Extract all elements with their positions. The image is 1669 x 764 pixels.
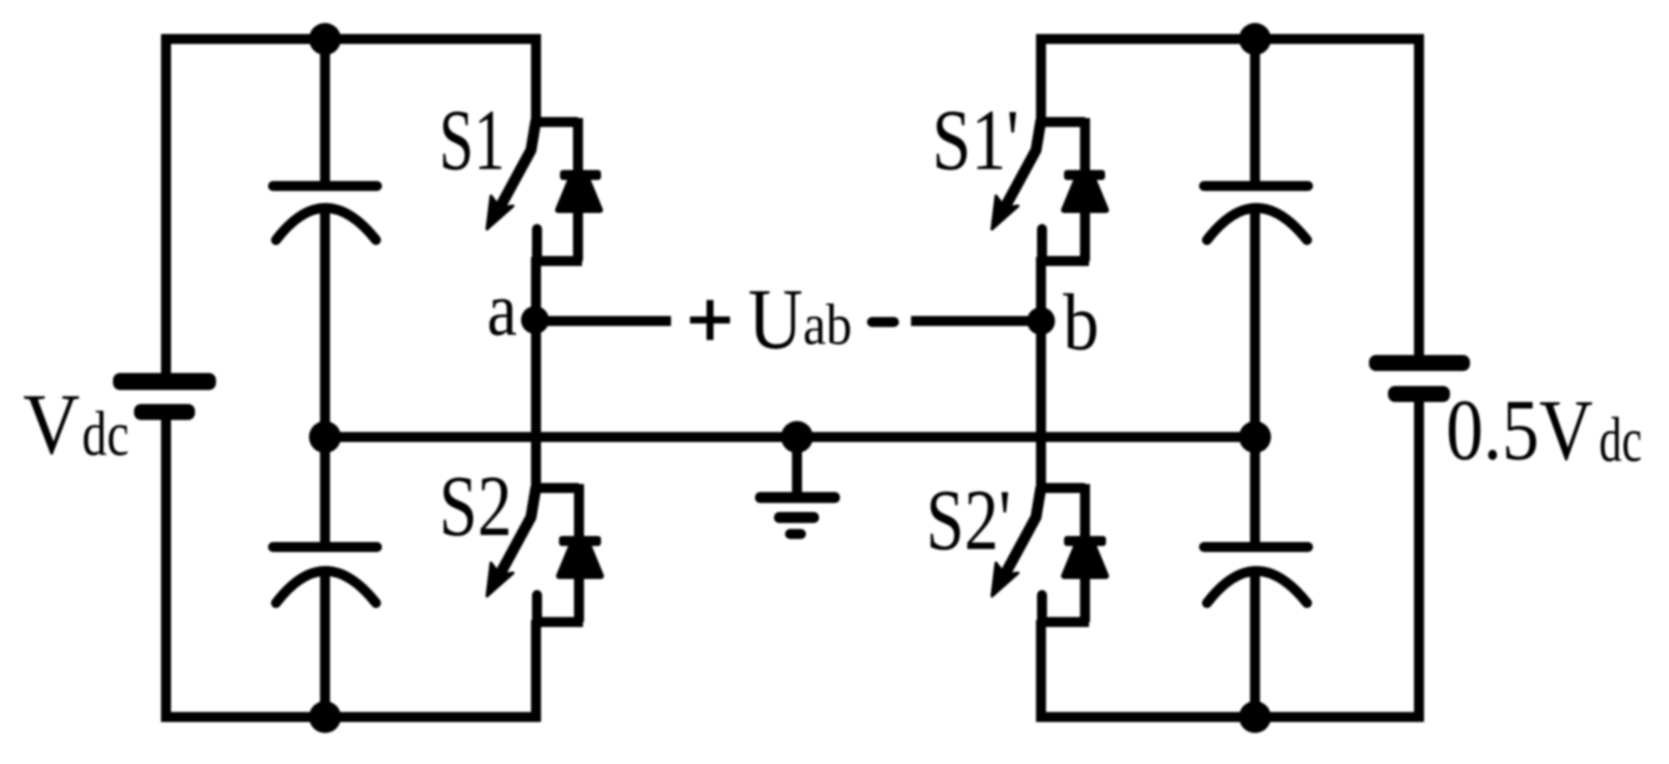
junction dot top-left — [309, 23, 341, 55]
wire: S2 diode branch vertical — [574, 484, 584, 622]
minus sign of Uab — [872, 317, 894, 327]
wire: switch-leg vertical S1 to S2 through node a — [531, 257, 541, 492]
junction dot top-right — [1239, 23, 1271, 55]
junction dot bottom-left — [309, 701, 341, 733]
wire: S2' loop bottom — [1038, 617, 1089, 627]
wire: right capacitor branch lower lead — [1250, 574, 1260, 717]
node b dot — [1027, 307, 1055, 335]
battery 0.5Vdc plates — [1369, 355, 1470, 402]
ground stem — [792, 437, 802, 497]
junction dot ground node — [781, 421, 813, 453]
svg-text:S1: S1 — [439, 91, 505, 188]
diode D2 (S2 anti-parallel) — [559, 536, 601, 576]
wire: right capacitor branch middle lead — [1250, 212, 1260, 545]
diode D1' (S1' anti-parallel) — [1064, 170, 1106, 210]
wire: right outer bottom + bottom bus + S2' emitter drop — [1041, 400, 1419, 717]
wire: right capacitor branch upper lead — [1250, 39, 1260, 184]
wire: left outer top + top bus + S1 drain stub — [166, 39, 536, 377]
svg-text:U: U — [748, 270, 803, 367]
wire: Uab minus lead to node b — [911, 316, 1041, 326]
switch S2 blade — [487, 487, 536, 596]
svg-text:b: b — [1063, 279, 1099, 367]
svg-text:dc: dc — [82, 398, 129, 469]
wire: left capacitor branch middle lead — [320, 212, 330, 545]
capacitor C2 lower-left — [273, 547, 377, 603]
wire: S1 loop bottom — [533, 256, 582, 266]
wire: middle bus between capacitor midpoints — [325, 432, 1255, 442]
wire: S1 collector loop top — [532, 117, 578, 127]
wire: right outer top + top bus + S1' drain stub — [1041, 39, 1419, 357]
svg-text:S2': S2' — [926, 471, 1011, 568]
wire: left capacitor branch upper lead — [320, 39, 330, 184]
wire: S2 loop bottom — [533, 617, 583, 627]
wire: S1' diode branch vertical — [1080, 118, 1090, 261]
wire: S2' collector loop top — [1037, 483, 1085, 493]
capacitor C3 upper-right — [1204, 186, 1308, 240]
capacitor C1 upper-left — [273, 186, 377, 240]
wire: S1' loop bottom — [1038, 256, 1089, 266]
battery Vdc plates — [113, 373, 216, 420]
diode D2' (S2' anti-parallel) — [1064, 536, 1106, 576]
wire: S1' collector loop top — [1037, 117, 1085, 127]
svg-text:S1': S1' — [932, 91, 1019, 188]
capacitor C4 lower-right — [1204, 547, 1308, 603]
wire: S2 lower contact stub — [532, 595, 542, 622]
wire: switch-leg vertical S1' to S2' through node b — [1036, 257, 1046, 492]
wire: S1' lower contact stub — [1037, 229, 1047, 261]
junction dot middle-right cap midpoint — [1239, 421, 1271, 453]
node a dot — [521, 306, 549, 334]
switch S1 blade — [487, 120, 536, 229]
svg-text:a: a — [487, 268, 517, 352]
wire: S2 collector loop top — [532, 483, 579, 493]
svg-text:0.5V: 0.5V — [1446, 381, 1593, 478]
wire: left outer bottom + bottom bus + S2 emitter drop — [166, 417, 536, 717]
junction dot middle-left cap midpoint — [309, 421, 341, 453]
svg-text:S2: S2 — [439, 457, 512, 554]
wire: S1 diode branch vertical — [573, 118, 583, 261]
diode D1 (S1 anti-parallel) — [558, 170, 601, 210]
junction dot bottom-right — [1239, 701, 1271, 733]
switch S1' blade — [992, 120, 1041, 229]
ground symbol — [755, 492, 840, 539]
wire: left capacitor branch lower lead — [320, 574, 330, 717]
svg-text:V: V — [23, 375, 80, 472]
wire: S1 lower contact stub — [532, 229, 542, 261]
wire: node a to Uab plus lead — [535, 316, 671, 326]
wire: S2' diode branch vertical — [1080, 484, 1090, 622]
plus sign of Uab — [690, 300, 730, 340]
wire: S2' lower contact stub — [1037, 595, 1047, 622]
svg-text:dc: dc — [1599, 404, 1642, 475]
svg-text:ab: ab — [803, 292, 852, 357]
switch S2' blade — [992, 487, 1041, 596]
